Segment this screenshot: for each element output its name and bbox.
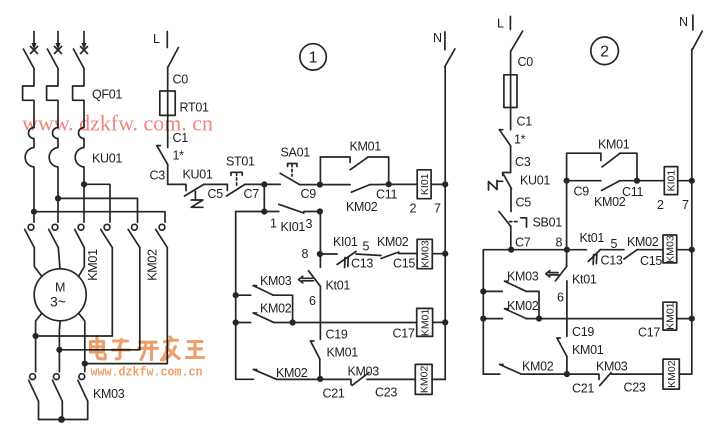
svg-text:KM03: KM03 <box>507 270 539 284</box>
auxiliary contact KM03 row4 (2) <box>600 373 611 386</box>
node N-KM03coil junction (2) <box>689 247 695 253</box>
schematic number 2 <box>591 37 619 65</box>
circuit breaker QF01 pole 3 <box>73 49 84 128</box>
svg-text:KM01: KM01 <box>598 138 630 152</box>
relay coil KI01 <box>417 170 431 199</box>
auxiliary contact KM02 (row2, circuit 2) <box>624 250 637 260</box>
node motor phase1 junction <box>33 333 39 339</box>
svg-text:KM01: KM01 <box>350 140 382 154</box>
svg-text:KM03: KM03 <box>596 360 628 374</box>
wire N rail (2) <box>691 49 693 374</box>
svg-text:5: 5 <box>363 240 370 254</box>
svg-text:8: 8 <box>302 247 309 261</box>
wire KI01 coil to N <box>431 183 445 185</box>
svg-text:KM02: KM02 <box>346 200 378 214</box>
phase L3 input arrow <box>81 32 88 54</box>
svg-text:KM02: KM02 <box>276 366 308 380</box>
svg-text:2: 2 <box>600 44 609 61</box>
wire node8 to KI01 timed contact <box>320 253 337 255</box>
svg-text:C13: C13 <box>351 257 373 271</box>
svg-text:KM02: KM02 <box>522 360 554 374</box>
node phase3 branch junction <box>81 181 87 187</box>
auxiliary contact KM02 interlock on rung1 <box>320 184 388 192</box>
svg-text:KI01: KI01 <box>281 220 306 234</box>
wire row3 to KM01 coil (2) <box>539 318 663 320</box>
wire ST01 to SA01 <box>245 183 280 185</box>
svg-text:7: 7 <box>434 202 441 216</box>
svg-text:C3: C3 <box>515 155 531 169</box>
auxiliary contact KM01 (seal-in) <box>320 157 388 184</box>
node bottom bus junction <box>58 416 65 423</box>
auxiliary contact KM03 (row 4) <box>352 373 369 386</box>
auxiliary contact KM02 (row 4) <box>254 370 321 380</box>
node C7 junction (2) <box>508 247 514 253</box>
svg-text:KM02: KM02 <box>377 235 409 249</box>
overcurrent relay KU01 pole 1 <box>25 128 34 223</box>
wire L down to fuse <box>167 67 169 91</box>
wire junction3 horizontal <box>85 363 168 365</box>
svg-text:6: 6 <box>309 294 316 308</box>
node rail-KM02 junction (2) <box>480 316 486 322</box>
auxiliary contact KM01 (vertical, row4) <box>311 341 320 379</box>
svg-text:www. dzkfw. com. cn: www. dzkfw. com. cn <box>22 111 213 136</box>
wire KM01 coil to N (2) <box>677 318 692 320</box>
wire rung (circuit 2) <box>483 249 567 251</box>
node C7 junction <box>261 181 267 187</box>
auxiliary contact KM01 seal-in (2) <box>567 153 637 181</box>
overcurrent relay KU01 pole 2 <box>49 128 58 223</box>
thermal contact 1* (2) <box>499 130 510 146</box>
contactor KM03 contact pole 3 <box>78 364 88 420</box>
phase L1 input arrow <box>31 32 38 54</box>
auxiliary contact KM02 row4 (2) <box>500 365 567 375</box>
svg-text:6: 6 <box>557 291 564 305</box>
node C11 junction (2) <box>634 178 640 184</box>
wire C15 to KM03 coil <box>399 253 417 255</box>
wire riser C9 to KM01 branch <box>319 157 321 185</box>
svg-text:3: 3 <box>306 217 313 231</box>
timed contact Kt01 (row2, circuit 2) <box>588 250 600 265</box>
thermal contact 1* (RT01) <box>157 146 168 165</box>
svg-text:KM03: KM03 <box>93 387 125 401</box>
wire KI01 coil to N (2) <box>678 180 692 182</box>
node C19 junction <box>290 319 296 325</box>
wire KM01 pole1 to motor <box>34 248 42 277</box>
circuit breaker QF01 pole 1 <box>23 49 34 128</box>
wire KM03 to KM02 coil (2) <box>611 373 663 375</box>
contactor coil KM02 (2) <box>663 359 679 389</box>
svg-text:KU01: KU01 <box>92 152 122 166</box>
svg-text:3~: 3~ <box>50 294 66 310</box>
wire KM01 coil to N <box>433 321 446 323</box>
wire rail to row4 <box>236 378 254 380</box>
wire junction1 horizontal <box>36 335 113 337</box>
svg-text:7: 7 <box>682 198 689 212</box>
wire SB01 down to rung <box>510 226 512 250</box>
node phase1 branch junction <box>31 209 37 215</box>
wire KM01 pole3 to motor <box>79 248 85 277</box>
wire C21 to KM03 contact <box>320 379 351 384</box>
wire C7 down to rung 2 <box>263 184 265 211</box>
svg-text:2: 2 <box>410 202 417 216</box>
svg-text:KU01: KU01 <box>183 168 213 182</box>
svg-text:1: 1 <box>309 50 318 67</box>
svg-text:www.dzkfw.com.cn: www.dzkfw.com.cn <box>91 365 203 380</box>
svg-text:KM03: KM03 <box>260 274 292 288</box>
node rail-KM02 junction <box>233 319 239 325</box>
contactor KM02 main contact pole 6 <box>156 224 168 247</box>
svg-text:KM02: KM02 <box>260 302 292 316</box>
node motor phase2 junction <box>56 347 62 353</box>
svg-text:SB01: SB01 <box>533 216 563 230</box>
contact KU01 (overcurrent relay) <box>185 184 204 207</box>
wire rail to row4 (2) <box>483 373 499 375</box>
wire phase1 to KM02 pole 6 <box>34 212 165 223</box>
node 8 (2) <box>564 247 570 253</box>
motor M 3~ <box>34 269 86 321</box>
wire L down to fuse (2) <box>510 51 512 75</box>
svg-text:KM02: KM02 <box>627 235 659 249</box>
wire KM03 coil to N <box>432 253 445 255</box>
svg-text:C23: C23 <box>624 381 646 395</box>
contact KU01 (circuit 2) <box>489 173 512 191</box>
overcurrent relay KU01 pole 3 <box>75 128 84 223</box>
wire C11 to KI01 coil <box>389 183 418 185</box>
contactor KM03 contact pole 2 <box>53 350 63 420</box>
wire KM03 coil to N (2) <box>677 249 692 251</box>
svg-text:KI01: KI01 <box>333 235 358 249</box>
wire C13 to KM02 (2) <box>601 249 625 251</box>
svg-text:L: L <box>497 17 504 31</box>
contactor KM03 contact pole 1 <box>29 336 39 420</box>
svg-text:Kt01: Kt01 <box>326 279 351 293</box>
auxiliary contact KM02 left (2) <box>483 309 539 319</box>
wire to rung 1 <box>167 165 169 185</box>
circuit breaker QF01 pole 2 <box>47 49 58 128</box>
svg-text:C3: C3 <box>150 169 166 183</box>
wire KM02 coil to N <box>432 378 445 380</box>
svg-text:8: 8 <box>556 236 563 250</box>
node 8 <box>317 251 323 257</box>
svg-text:KM01: KM01 <box>327 346 359 360</box>
svg-text:C13: C13 <box>601 254 623 268</box>
wire Kt01 down across row3 (2) <box>566 281 568 337</box>
contactor KM01 main contact pole 2 <box>49 224 59 247</box>
svg-text:C7: C7 <box>244 187 260 201</box>
svg-text:ST01: ST01 <box>226 155 255 169</box>
wire junction2 horizontal <box>59 349 139 351</box>
contactor coil KM03 <box>417 239 432 268</box>
auxiliary contact KM01 vertical (2) <box>557 338 567 374</box>
svg-text:N: N <box>433 31 442 45</box>
wire fuse to thermal contact <box>167 115 169 147</box>
svg-text:C9: C9 <box>574 185 590 199</box>
node C11 junction <box>386 181 392 187</box>
svg-text:C1: C1 <box>517 115 533 129</box>
auxiliary contact KM03 left (2) <box>483 281 539 318</box>
timed contact Kt01 (arrow, circuit 2) <box>546 266 567 281</box>
fuse RT01 <box>160 91 175 115</box>
svg-text:KU01: KU01 <box>520 174 550 188</box>
wire rung2 right part <box>304 211 321 213</box>
svg-text:QF01: QF01 <box>92 88 122 102</box>
contactor KM02 main contact pole 4 <box>101 224 113 247</box>
svg-text:C19: C19 <box>326 328 348 342</box>
watermark chinese characters (orange) <box>91 337 204 360</box>
node N-KM01coil junction (2) <box>689 316 695 322</box>
relay contact KI01 (1-3) <box>279 204 304 213</box>
wire left rail circuit 1 <box>235 212 237 380</box>
wire C11 to KI01 coil (2) <box>637 180 664 182</box>
switch N (circuit 1) <box>445 49 455 67</box>
switch L (circuit 1) <box>168 48 178 68</box>
wire node8 to Kt01 contact (2) <box>567 249 587 251</box>
svg-text:KM02: KM02 <box>666 360 678 388</box>
wire to KU01 contact (2) <box>510 146 512 173</box>
svg-text:C17: C17 <box>393 327 415 341</box>
node C9 junction <box>317 182 323 188</box>
switch N (circuit 2) <box>693 31 703 49</box>
svg-text:KM02: KM02 <box>507 299 539 313</box>
node motor phase3 junction <box>82 361 88 367</box>
contactor coil KM01 (2) <box>663 302 677 330</box>
node C19 junction (2) <box>536 316 542 322</box>
node N-KI01 junction <box>442 181 448 187</box>
node N-KM03coil junction <box>442 251 448 257</box>
node N-KM01coil junction <box>442 319 448 325</box>
wire KM01 pole2 to motor <box>58 248 60 269</box>
wire C15 to KM03 coil (2) <box>637 249 663 251</box>
wire C13 to KM02 contact <box>356 254 381 256</box>
timed contact Kt01 (arrow, below node 8) <box>299 254 321 286</box>
svg-text:KM03: KM03 <box>665 235 677 263</box>
node rung2 left junction <box>261 209 267 215</box>
wire riser to node 8 <box>319 212 321 255</box>
wire rung2 <box>236 211 279 213</box>
auxiliary contact KM03 (left) <box>236 286 293 323</box>
svg-text:KM03: KM03 <box>419 240 431 268</box>
svg-text:KI01: KI01 <box>419 173 431 195</box>
timed contact KI01 (row 2) <box>337 252 356 268</box>
svg-text:KM02: KM02 <box>418 366 430 394</box>
wire motor W to node / KM02 pole6 drop <box>79 313 85 363</box>
svg-text:1: 1 <box>270 217 277 231</box>
phase L2 input arrow <box>55 32 62 54</box>
svg-text:C9: C9 <box>301 187 317 201</box>
relay coil KI01 (2) <box>664 167 677 195</box>
node N-KI01 junction (2) <box>689 178 695 184</box>
svg-text:C5: C5 <box>208 187 224 201</box>
svg-text:C17: C17 <box>638 326 660 340</box>
pushbutton SA01 <box>280 164 299 185</box>
wire KU01 to SB01 <box>510 189 512 212</box>
svg-text:C5: C5 <box>516 196 532 210</box>
pushbutton ST01 <box>227 172 246 196</box>
svg-text:C7: C7 <box>515 236 531 250</box>
svg-text:KM02: KM02 <box>146 249 160 281</box>
svg-text:KM01: KM01 <box>572 343 604 357</box>
node rung2-C9 junction <box>317 208 323 214</box>
schematic number 1 <box>300 44 326 70</box>
node phase2 branch junction <box>55 195 61 201</box>
svg-text:N: N <box>679 15 688 29</box>
svg-text:C0: C0 <box>518 55 534 69</box>
switch L (circuit 2) <box>511 31 523 51</box>
svg-text:Kt01: Kt01 <box>580 231 605 245</box>
pushbutton SB01 <box>499 212 527 228</box>
wire fuse to thermal contact (2) <box>510 108 512 130</box>
svg-text:C21: C21 <box>323 387 345 401</box>
fuse (circuit 2) <box>504 75 517 108</box>
node C21 junction (2) <box>564 371 570 377</box>
svg-text:1*: 1* <box>514 133 526 147</box>
node rail-KM03 junction (2) <box>480 288 486 294</box>
wire rung1 start <box>168 184 186 190</box>
wire row3 to KM01 coil <box>293 322 417 324</box>
wire left rail (circuit 2) <box>482 250 484 374</box>
wire riser C9 (circuit 2) <box>566 153 568 266</box>
wire C21 to KM03 contact (2) <box>567 374 599 379</box>
svg-text:C15: C15 <box>393 257 415 271</box>
contactor KM02 main contact pole 5 <box>128 224 140 247</box>
wire Kt01 down across row3 <box>319 286 321 339</box>
svg-text:Kt01: Kt01 <box>572 273 597 287</box>
svg-text:M: M <box>55 281 65 295</box>
contactor coil KM03 (2) <box>663 235 677 263</box>
auxiliary contact KM02 (row 2) <box>381 252 399 259</box>
wire N rail <box>444 67 446 380</box>
wire bottom bus <box>39 419 88 421</box>
wire KU01 to ST01 <box>204 183 228 185</box>
wire motor V to node / KM02 pole5 drop <box>58 321 61 350</box>
wire SA01 to C9 node <box>300 184 321 186</box>
wire phase3 to KM02 pole 4 <box>84 184 110 222</box>
svg-text:KM01: KM01 <box>419 309 431 337</box>
contactor KM01 main contact pole 3 <box>75 224 85 247</box>
svg-text:C15: C15 <box>640 254 662 268</box>
svg-text:C11: C11 <box>622 185 643 199</box>
svg-text:C21: C21 <box>572 382 594 396</box>
svg-text:SA01: SA01 <box>281 146 311 160</box>
svg-text:KI01: KI01 <box>666 170 678 192</box>
auxiliary contact KM02 interlock (2) <box>567 181 637 191</box>
wire KM02 coil to N (2) <box>679 373 692 375</box>
contactor KM01 main contact pole 1 <box>25 224 35 247</box>
svg-text:C11: C11 <box>376 188 397 202</box>
svg-text:C23: C23 <box>375 386 397 400</box>
contactor coil KM01 <box>417 308 433 336</box>
svg-text:C0: C0 <box>173 73 189 87</box>
svg-text:2: 2 <box>657 198 664 212</box>
wire motor U to node / KM02 pole4 drop <box>36 313 42 336</box>
svg-text:C19: C19 <box>572 325 594 339</box>
node rail-KM03 junction <box>233 292 239 298</box>
svg-text:KM01: KM01 <box>665 302 677 330</box>
svg-text:1*: 1* <box>173 149 185 163</box>
svg-text:KM01: KM01 <box>86 249 100 281</box>
contactor coil KM02 <box>415 364 432 394</box>
auxiliary contact KM02 (left) <box>236 313 293 323</box>
wire phase2 to KM02 pole 5 <box>58 198 138 222</box>
svg-text:KM03: KM03 <box>348 365 380 379</box>
wire KM03 to KM02 coil <box>367 378 415 380</box>
svg-text:L: L <box>153 32 160 46</box>
node C9 junction (2) <box>564 178 570 184</box>
node C21 junction <box>317 376 323 382</box>
